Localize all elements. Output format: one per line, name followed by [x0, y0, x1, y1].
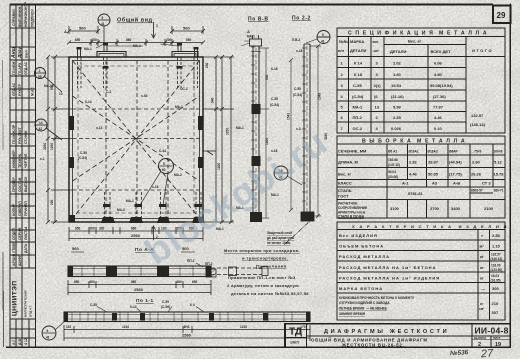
svg-text:СТАЛЬ: СТАЛЬ [338, 188, 352, 193]
svg-text:41: 41 [101, 22, 105, 26]
svg-text:59.08(19.54): 59.08(19.54) [430, 83, 453, 88]
svg-text:К-14: К-14 [85, 100, 92, 104]
svg-text:ОТД 4 Г: ОТД 4 Г [29, 305, 33, 317]
svg-text:650: 650 [75, 38, 81, 42]
svg-text:МА-1: МА-1 [236, 126, 244, 130]
svg-text:С-55: С-55 [271, 97, 278, 101]
svg-text:Защитный слой: Защитный слой [267, 231, 292, 235]
svg-text:ИИ-04-8: ИИ-04-8 [475, 326, 509, 336]
svg-text:(40.06): (40.06) [388, 175, 398, 179]
svg-text:∟75×9: ∟75×9 [471, 150, 482, 154]
svg-text:ОТД.АС: ОТД.АС [12, 82, 16, 96]
svg-text:ОБЪЕМ БЕТОНА: ОБЪЕМ БЕТОНА [339, 244, 384, 249]
svg-text:3100: 3100 [390, 206, 400, 211]
svg-text:50.85: 50.85 [428, 172, 439, 177]
svg-text:С-55: С-55 [80, 151, 87, 155]
svg-text:Места опирания при складиров.: Места опирания при складиров. [224, 248, 300, 253]
svg-text:УТВЕР: УТВЕР [12, 241, 16, 253]
svg-text:650: 650 [186, 38, 192, 42]
svg-text:5.99: 5.99 [393, 105, 402, 110]
svg-text:2.25: 2.25 [393, 115, 402, 120]
svg-text:2560: 2560 [134, 287, 144, 292]
svg-text:(17.75): (17.75) [449, 172, 462, 177]
svg-text:м³: м³ [480, 244, 485, 249]
svg-text:детальн см листах №№53,56,57,5: детальн см листах №№53,56,57,58 [231, 291, 309, 296]
svg-text:Общий вид: Общий вид [117, 17, 153, 24]
svg-text:Вес, кг: Вес, кг [408, 39, 422, 44]
svg-text:200: 200 [92, 38, 98, 42]
svg-text:К-18: К-18 [271, 67, 278, 71]
svg-text:(С-56): (С-56) [161, 305, 170, 309]
svg-text:(123.50): (123.50) [491, 268, 503, 272]
svg-text:По В-В: По В-В [248, 17, 269, 23]
svg-text:(21.16): (21.16) [391, 94, 404, 99]
svg-text:1.60: 1.60 [393, 72, 402, 77]
svg-text:С-55: С-55 [353, 83, 362, 88]
svg-text:Д В: Д В [18, 339, 22, 345]
svg-text:77.87: 77.87 [433, 105, 444, 110]
svg-text:16.03: 16.03 [491, 274, 499, 278]
svg-text:950: 950 [265, 74, 269, 80]
svg-text:ИНЖЕНЕР: ИНЖЕНЕР [12, 150, 16, 168]
svg-text:ГЛ.ИНЖ: ГЛ.ИНЖ [12, 61, 16, 75]
svg-text:650: 650 [74, 280, 80, 284]
svg-text:1210: 1210 [240, 325, 247, 329]
svg-text:5781-61: 5781-61 [408, 191, 423, 196]
svg-text:0.026: 0.026 [391, 126, 402, 131]
svg-text:РУК.СЕКТ: РУК.СЕКТ [18, 126, 22, 144]
svg-text:ЛИСТ: ЛИСТ [493, 336, 501, 340]
svg-text:А3: А3 [432, 181, 438, 186]
svg-text:2 Арматуру, петлю и закладную: 2 Арматуру, петлю и закладную [227, 283, 299, 288]
svg-text:С-55: С-55 [162, 300, 169, 304]
svg-text:не менее 15мм: не менее 15мм [267, 241, 291, 245]
svg-text:ВЫПУСК: ВЫПУСК [474, 336, 487, 340]
svg-text:41: 41 [46, 336, 50, 340]
svg-text:210: 210 [492, 301, 499, 306]
svg-text:200: 200 [50, 199, 54, 205]
svg-text:4.46: 4.46 [409, 172, 418, 177]
svg-text:28.97: 28.97 [428, 160, 439, 165]
svg-text:ГЛ.АРХ: ГЛ.АРХ [18, 62, 22, 75]
svg-text:950: 950 [50, 84, 54, 90]
svg-text:41: 41 [321, 40, 325, 44]
svg-text:1967г: 1967г [290, 341, 300, 345]
svg-text:300: 300 [492, 286, 499, 291]
svg-text:200: 200 [177, 280, 183, 284]
svg-text:940: 940 [211, 97, 215, 103]
svg-text:ШИФР: ШИФР [18, 254, 22, 266]
svg-text:15.78: 15.78 [494, 172, 505, 177]
svg-text:380-71: 380-71 [494, 189, 504, 193]
svg-text:26.26: 26.26 [471, 172, 482, 177]
svg-text:ВЫП.МИНЖ: ВЫП.МИНЖ [18, 6, 22, 27]
svg-text:ОТГРУЗКИ ИЗДЕЛИЙ С ЗАВОДА: ОТГРУЗКИ ИЗДЕЛИЙ С ЗАВОДА [339, 301, 390, 305]
svg-text:С-55: С-55 [90, 303, 97, 307]
svg-text:(140.14): (140.14) [470, 122, 486, 127]
svg-text:СПРАВКИ: СПРАВКИ [12, 9, 16, 26]
svg-text:К-14: К-14 [130, 305, 137, 309]
svg-text:ПП-2: ПП-2 [205, 262, 213, 266]
svg-text:307: 307 [492, 310, 499, 315]
svg-text:Применение ПП-1-см лист №3: Применение ПП-1-см лист №3 [228, 275, 296, 280]
svg-text:560: 560 [183, 26, 190, 31]
svg-text:ГОСТ: ГОСТ [338, 194, 349, 199]
svg-text:Ø16А1: Ø16А1 [409, 150, 419, 154]
svg-text:СЕРИЯ: СЕРИЯ [18, 227, 22, 240]
svg-text:х-18: х-18 [296, 49, 303, 53]
svg-text:2.60: 2.60 [472, 160, 481, 165]
svg-text:х-1: х-1 [40, 157, 45, 161]
svg-text:2: 2 [39, 69, 41, 73]
svg-text:ДЕТАЛИ: ДЕТАЛИ [390, 49, 406, 54]
svg-text:∟С-2: ∟С-2 [103, 90, 111, 94]
svg-text:5.12: 5.12 [494, 160, 503, 165]
svg-text:4.46: 4.46 [434, 115, 443, 120]
svg-text:1543: 1543 [287, 113, 291, 120]
svg-text:РАСХОД МЕТАЛЛА: РАСХОД МЕТАЛЛА [339, 254, 390, 259]
svg-text:КОПИР: КОПИР [12, 203, 16, 216]
svg-text:4 12: 4 12 [24, 338, 28, 345]
svg-text:К 4: К 4 [190, 303, 195, 307]
svg-text:2.85: 2.85 [492, 233, 501, 238]
svg-text:—: — [481, 286, 485, 291]
svg-text:560: 560 [72, 246, 79, 251]
svg-text:132.57: 132.57 [471, 113, 484, 118]
svg-text:п/п: п/п [338, 48, 345, 53]
svg-text:МАГИСТРАТСКАЯ: МАГИСТРАТСКАЯ [24, 291, 28, 317]
svg-text:(С-54): (С-54) [293, 93, 302, 97]
svg-text:А-1: А-1 [402, 181, 409, 186]
svg-text:ДЛИНА, М: ДЛИНА, М [338, 160, 359, 165]
svg-text:МА-1: МА-1 [247, 35, 255, 39]
svg-text:ЗИМНЕЕ ВРЕМЯ: ЗИМНЕЕ ВРЕМЯ [339, 312, 366, 316]
svg-text:МА-2: МА-2 [174, 173, 182, 177]
svg-text:(147.12): (147.12) [388, 163, 400, 167]
svg-text:100×8: 100×8 [494, 150, 503, 154]
svg-text:192.66: 192.66 [388, 158, 398, 162]
svg-text:Вес ИЗДЕЛИЯ: Вес ИЗДЕЛИЯ [339, 233, 378, 238]
svg-text:СТ.ИНЖ: СТ.ИНЖ [24, 130, 28, 144]
svg-text:шт: шт [374, 48, 379, 53]
svg-text:РАСЧЕТНОЕ: РАСЧЕТНОЕ [338, 202, 358, 206]
svg-text:Вес, кг: Вес, кг [338, 172, 352, 177]
svg-text:ГЛ.ИНЖ.ПР: ГЛ.ИНЖ.ПР [12, 124, 16, 144]
svg-text:т: т [481, 233, 483, 238]
svg-text:А: А [64, 29, 67, 34]
svg-text:3(1): 3(1) [374, 83, 382, 88]
svg-text:70: 70 [302, 325, 306, 329]
svg-text:С-55: С-55 [294, 87, 301, 91]
svg-text:ДЕТАЛИ: ДЕТАЛИ [350, 48, 366, 53]
svg-text:ОС-2: ОС-2 [180, 87, 188, 91]
svg-text:650: 650 [192, 280, 198, 284]
svg-text:10: 10 [59, 92, 63, 96]
svg-text:ОТД.АС: ОТД.АС [24, 61, 28, 75]
svg-text:29: 29 [497, 11, 506, 20]
svg-text:60: 60 [162, 168, 166, 172]
svg-text:6: 6 [47, 329, 49, 333]
svg-text:9: 9 [322, 33, 324, 37]
svg-text:кол.: кол. [373, 40, 379, 44]
svg-text:860: 860 [131, 227, 137, 231]
svg-text:27: 27 [480, 348, 495, 359]
svg-text:2700: 2700 [430, 206, 440, 211]
svg-text:кг: кг [480, 276, 484, 281]
svg-text:СТ 3: СТ 3 [482, 181, 491, 186]
svg-text:ДАТА: ДАТА [24, 243, 28, 253]
svg-text:2.02: 2.02 [393, 61, 402, 66]
svg-text:1200: 1200 [50, 143, 54, 150]
svg-text:ОТДЕЛ: ОТДЕЛ [12, 227, 16, 240]
svg-text:650: 650 [75, 227, 81, 231]
svg-text:КЛАСС: КЛАСС [338, 181, 352, 186]
svg-text:АРХИВ: АРХИВ [12, 253, 16, 266]
svg-text:3250: 3250 [43, 143, 47, 150]
svg-text:Ø16А3: Ø16А3 [428, 150, 438, 154]
svg-text:МА-1: МА-1 [84, 47, 92, 51]
svg-text:СОСТАВ: СОСТАВ [18, 177, 22, 192]
svg-text:РУК.ГР: РУК.ГР [18, 83, 22, 96]
svg-text:0.10: 0.10 [434, 126, 443, 131]
svg-text:А: А [247, 29, 250, 34]
svg-text:МА-1: МА-1 [126, 199, 134, 203]
svg-text:132.57: 132.57 [491, 253, 501, 257]
svg-text:4Н3: 4Н3 [184, 325, 190, 329]
svg-text:2100: 2100 [484, 206, 494, 211]
svg-text:С-44: С-44 [159, 149, 166, 153]
svg-text:МА-3: МА-3 [117, 208, 125, 212]
svg-text:ТЕХНИК: ТЕХНИК [18, 153, 22, 168]
svg-text:и транспортировке.: и транспортировке. [242, 256, 288, 261]
svg-text:(44.94): (44.94) [449, 160, 462, 165]
svg-text:МА-1: МА-1 [353, 105, 364, 110]
svg-text:К 14: К 14 [354, 61, 363, 66]
svg-text:59: 59 [38, 75, 42, 79]
svg-text:ПОДПИСИ: ПОДПИСИ [31, 9, 35, 27]
svg-text:8509-57: 8509-57 [471, 189, 483, 193]
svg-text:В Ы Б О Р К А М Е Т А Л Л А: В Ы Б О Р К А М Е Т А Л Л А [362, 139, 466, 145]
svg-text:Бол: Бол [24, 50, 29, 58]
svg-text:Х А Р А К Т Е Р И С Т И К А И: Х А Р А К Т Е Р И С Т И К А И З Д Е Л И … [352, 224, 508, 229]
svg-text:СЕЧЕНИЕ, ММ: СЕЧЕНИЕ, ММ [338, 149, 367, 154]
svg-text:ЧЕРТИЛ: ЧЕРТИЛ [24, 153, 28, 168]
svg-text:13: 13 [375, 105, 380, 110]
svg-text:ВСЕХ ДЕТ: ВСЕХ ДЕТ [431, 49, 452, 54]
svg-text:С П Е Ц И Ф И К А Ц И Я М Е Т: С П Е Ц И Ф И К А Ц И Я М Е Т А Л Л А [348, 31, 488, 37]
svg-text:200: 200 [90, 280, 96, 284]
svg-text:ДИАФРАГМЫ ЖЕСТКОСТИ: ДИАФРАГМЫ ЖЕСТКОСТИ [324, 329, 449, 335]
svg-text:110: 110 [66, 325, 71, 329]
svg-text:42: 42 [39, 127, 43, 131]
svg-text:200: 200 [166, 38, 172, 42]
svg-text:ЖЕСТКОСТИ ВЦ-26-52.: ЖЕСТКОСТИ ВЦ-26-52. [341, 342, 404, 347]
svg-text:М.АС: М.АС [31, 87, 35, 96]
svg-text:(С-54): (С-54) [78, 156, 87, 160]
svg-text:5: 5 [163, 162, 165, 166]
svg-text:560: 560 [79, 26, 86, 31]
svg-text:КУБИКОВАЯ ПРОЧНОСТЬ БЕТОНА К М: КУБИКОВАЯ ПРОЧНОСТЬ БЕТОНА К МОМЕНТУ [339, 296, 415, 300]
svg-text:ТД: ТД [289, 327, 302, 338]
svg-text:3400: 3400 [451, 206, 461, 211]
svg-text:ИТОГО: ИТОГО [472, 48, 493, 53]
svg-text:К 18: К 18 [354, 72, 363, 77]
svg-text:х-14: х-14 [96, 126, 103, 130]
svg-text:Ø6 А1: Ø6 А1 [388, 150, 397, 154]
svg-text:(140.14): (140.14) [491, 257, 503, 261]
svg-text:А-В: А-В [453, 181, 460, 186]
svg-text:19: 19 [495, 342, 501, 348]
svg-text:ОС-2: ОС-2 [353, 126, 363, 131]
svg-text:ПРИНЯЛ: ПРИНЯЛ [24, 201, 28, 216]
svg-text:ЛЕТНЕЕ ВРЕМЯ — НЕ МЕНЕЕ: ЛЕТНЕЕ ВРЕМЯ — НЕ МЕНЕЕ [339, 307, 387, 311]
svg-text:860: 860 [131, 280, 137, 284]
svg-text:3250: 3250 [226, 128, 230, 135]
svg-text:19.54: 19.54 [391, 83, 402, 88]
svg-text:9: 9 [102, 16, 104, 20]
svg-text:2: 2 [478, 342, 481, 348]
svg-text:(27.36): (27.36) [433, 94, 446, 99]
svg-text:СТАЛИ В СЕЧЕН: СТАЛИ В СЕЧЕН [338, 215, 365, 219]
svg-text:Драу: Драу [17, 47, 22, 59]
svg-text:МАРКА БЕТОНА: МАРКА БЕТОНА [339, 286, 383, 291]
svg-text:МА-1: МА-1 [175, 105, 183, 109]
svg-text:НОРМОКОНТР: НОРМОКОНТР [24, 1, 28, 27]
svg-text:(С-54): (С-54) [352, 94, 364, 99]
svg-text:1200: 1200 [217, 163, 221, 170]
svg-text:(С-54): (С-54) [270, 103, 279, 107]
svg-text:ВЫПУСК: ВЫПУСК [24, 176, 28, 192]
svg-text:860: 860 [126, 38, 132, 42]
svg-text:1210: 1210 [122, 325, 129, 329]
svg-text:6.06: 6.06 [434, 61, 443, 66]
svg-text:Примечания: Примечания [256, 264, 287, 269]
svg-text:200: 200 [90, 227, 96, 231]
svg-text:14: 14 [39, 121, 43, 125]
svg-text:№№: №№ [339, 39, 348, 44]
svg-text:МАРКА: МАРКА [350, 39, 364, 44]
svg-text:4.80: 4.80 [434, 72, 443, 77]
svg-text:№536: №536 [450, 349, 469, 357]
svg-text:ЦНИИТЭП: ЦНИИТЭП [12, 280, 19, 316]
svg-text:По 2-2: По 2-2 [292, 16, 311, 22]
svg-text:кг: кг [480, 254, 484, 259]
svg-text:РАСХОД МЕТАЛЛА НА 1м³ БЕТОНА: РАСХОД МЕТАЛЛА НА 1м³ БЕТОНА [339, 265, 436, 270]
svg-text:А Г: А Г [12, 340, 16, 346]
svg-text:см²: см² [479, 307, 484, 311]
svg-text:кг: кг [480, 265, 484, 270]
svg-text:до раб арматуры: до раб арматуры [267, 236, 295, 240]
svg-text:По 1-1: По 1-1 [136, 298, 154, 304]
svg-text:х-54: х-54 [141, 94, 148, 98]
svg-text:Ø8АР: Ø8АР [449, 150, 459, 154]
svg-text:(16.95): (16.95) [491, 279, 501, 283]
svg-text:ПП-2: ПП-2 [187, 259, 195, 263]
svg-text:90.04: 90.04 [388, 170, 396, 174]
svg-text:СВЕРИЛ: СВЕРИЛ [18, 201, 22, 216]
svg-text:ПРОВЕР: ПРОВЕР [12, 177, 16, 192]
svg-text:РАСХОД МЕТАЛЛА НА 1м² ИЗДЕЛИЯ: РАСХОД МЕТАЛЛА НА 1м² ИЗДЕЛИЯ [339, 276, 440, 281]
svg-text:1549: 1549 [318, 93, 322, 100]
svg-text:х-18: х-18 [152, 185, 159, 189]
svg-text:200: 200 [205, 62, 209, 68]
svg-text:СОПРОТИВЛЕНИЕ: СОПРОТИВЛЕНИЕ [338, 206, 367, 210]
svg-text:2560: 2560 [182, 333, 192, 338]
svg-text:1.15: 1.15 [492, 244, 501, 249]
svg-text:3250: 3250 [324, 133, 328, 140]
svg-text:П.В-2: П.В-2 [292, 38, 301, 42]
svg-text:330: 330 [99, 227, 105, 231]
svg-text:1200: 1200 [265, 138, 269, 145]
svg-text:ЛИСТЫ: ЛИСТЫ [24, 226, 28, 240]
svg-text:116.00: 116.00 [491, 264, 501, 268]
svg-text:ПП-2: ПП-2 [353, 115, 363, 120]
svg-text:2: 2 [156, 24, 158, 28]
svg-text:2.82: 2.82 [409, 160, 418, 165]
